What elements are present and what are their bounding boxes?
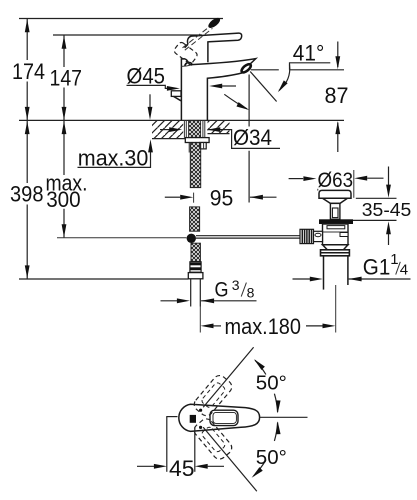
dimension line 147/max.300 (x=64) — [63, 35, 65, 238]
plug dome cap — [319, 190, 351, 198]
41 deg leader arc — [279, 65, 290, 91]
screw dots — [199, 409, 202, 412]
knurled rod adjuster — [300, 229, 314, 243]
tailpiece — [323, 256, 325, 290]
dashed handle rotated down 50 — [192, 416, 235, 461]
counter bottom line left — [152, 138, 185, 140]
lower angle arc — [254, 422, 278, 476]
cartridge square — [190, 415, 196, 423]
hose wide nut — [188, 273, 203, 279]
hose nut — [190, 262, 201, 272]
svg-text:87: 87 — [325, 83, 349, 108]
vertical ref line through aerator — [248, 75, 250, 203]
pop-up rod knob — [171, 91, 181, 97]
35-45 dimension — [356, 197, 397, 199]
svg-text:1: 1 — [390, 251, 398, 268]
waste bottom taper — [323, 245, 349, 250]
svg-text:G1: G1 — [363, 254, 391, 279]
50 deg lower ref line — [203, 427, 257, 491]
dome taper — [323, 198, 348, 203]
plug stem — [330, 203, 340, 219]
waste body — [323, 224, 349, 245]
waste flange (dark) — [319, 219, 353, 224]
87 top ref line — [251, 69, 344, 71]
threaded shank in counter hole — [183, 120, 185, 137]
50 deg upper ref line — [203, 347, 253, 407]
svg-text:8: 8 — [247, 285, 255, 301]
lever (closed, horizontal) — [187, 33, 241, 62]
pop-up rod to drain — [196, 235, 300, 237]
svg-text:45: 45 — [169, 456, 195, 481]
G1 1/4 arrows — [293, 278, 311, 280]
svg-text:4: 4 — [400, 262, 408, 279]
45 dimension — [166, 416, 177, 418]
rod extension to max300 — [57, 237, 187, 239]
waste bottom nut — [321, 250, 350, 256]
svg-text:41°: 41° — [293, 41, 325, 66]
hose middle section — [190, 207, 200, 231]
lever raised body (dashed) — [173, 41, 198, 65]
counter hatching right — [208, 121, 230, 133]
svg-text:398: 398 — [10, 182, 44, 207]
hose tube end — [190, 279, 192, 307]
svg-text:G: G — [215, 279, 229, 302]
faucet top view outline — [179, 404, 260, 431]
lever raised grip (thin dashed strokes) — [183, 26, 211, 48]
angle arc at spout — [224, 94, 247, 109]
hose lower section — [191, 243, 200, 261]
dashed handle rotated up 50 — [192, 373, 235, 418]
svg-text:300: 300 — [46, 187, 80, 212]
svg-text:3: 3 — [232, 277, 240, 293]
grip window — [210, 410, 238, 425]
extension line: top of lever (174 ref) — [19, 18, 223, 20]
spout underside — [207, 73, 242, 121]
junction dot — [187, 234, 196, 243]
svg-text:max.30: max.30 — [78, 145, 149, 170]
87 dimension arrows — [337, 42, 339, 68]
aerator — [240, 63, 252, 74]
svg-text:max.180: max.180 — [225, 314, 302, 339]
svg-text:174: 174 — [12, 59, 45, 84]
counter hatching left — [152, 121, 183, 138]
svg-text:35-45: 35-45 — [362, 200, 412, 220]
svg-text:147: 147 — [50, 66, 83, 91]
svg-text:95: 95 — [210, 185, 234, 210]
G3/8 arrows — [161, 300, 178, 302]
svg-text:Ø63: Ø63 — [318, 169, 354, 192]
stud block — [200, 143, 206, 149]
398 bottom extension line — [19, 278, 188, 280]
drain centerline — [335, 285, 337, 333]
svg-text:50°: 50° — [256, 371, 287, 394]
svg-text:50°: 50° — [256, 446, 287, 469]
upper angle arc — [255, 360, 278, 412]
hose upper section — [190, 143, 200, 188]
arrow at body right edge — [222, 85, 236, 87]
faucet body outline — [181, 59, 255, 121]
svg-text:Ø34: Ø34 — [233, 125, 272, 150]
dimension line 174/398 (x=27.2) — [26, 19, 28, 280]
counter top line / 87 bottom ref — [19, 119, 344, 121]
washer under counter — [185, 138, 209, 143]
counter bottom line right — [208, 133, 230, 135]
hose break centerline — [193, 193, 195, 203]
lever knob at top — [207, 16, 222, 30]
spout stream direction line (41 deg) — [250, 72, 276, 102]
centerline right — [260, 416, 308, 418]
extension line: 147 ref — [53, 34, 202, 36]
